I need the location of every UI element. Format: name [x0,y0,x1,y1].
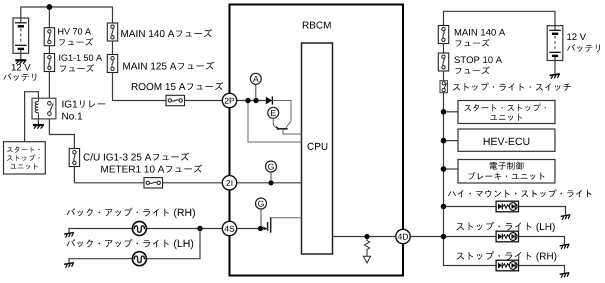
lamp L1: back-up light RH [132,222,146,236]
lamp L4: stop light LH [496,231,518,242]
wire: top bus drop to HV fuse column [48,7,50,28]
arrow: to other circuit [363,256,370,263]
label: ROOM 15 Aフューズ [132,82,223,90]
label: フューズ (HV) [59,38,93,46]
box: スタート・ストップ・ユニット (right) [458,101,555,124]
ground: stop light LH [560,244,570,249]
wire: MAIN140 to MAIN125 [112,41,114,55]
lamp L2: back-up light LH [132,252,146,266]
label: バック・アップ・ライト (LH) [67,239,194,249]
wire: CPU output to 4D [333,236,396,238]
relay K1: IG1リレー No.1 [32,98,56,119]
label: HV 70 A [58,28,91,34]
ground: back-up light RH [64,232,74,237]
junction: brake unit tap [441,166,447,172]
label: MAIN 140 A (right) [455,29,505,36]
label: 12 V (left battery) [12,64,31,71]
connector 2I [222,176,236,190]
label: No.1 [62,113,82,120]
label: MAIN 125 Aフューズ [123,62,214,70]
ground: stop light RH [560,273,570,278]
connector 2P [222,93,236,107]
wire: top-right bus [444,11,556,25]
label: フューズ (MAIN right) [456,39,490,47]
junction: top bus [47,4,53,10]
ground: high-mount stop light [561,215,571,220]
wire: top-left bus [21,7,113,23]
battery B2 (right 12 V) [547,26,563,61]
junction: 4D / stop light LH tap [441,234,447,240]
fuse F7: METER1 10 A [144,178,163,188]
wire: bus to brake unit [444,168,459,170]
wire: LH back-up light joins RH [69,229,200,264]
junction: 2I node [268,180,273,185]
label: フューズ (IG1-1) [60,64,94,72]
label: バッテリ (left battery) [3,73,36,81]
node G (lower) [256,198,267,209]
wire: STOP fuse to switch [443,71,445,81]
node E [268,107,279,118]
wire: relay to C/U fuse to METER1 fuse to 2I [49,119,221,183]
box: 電子制御ブレーキ・ユニット [458,160,555,184]
wire: 4D to bus [410,236,443,238]
ground: right battery [554,61,556,75]
label: ストップ・ライト (RH) [457,251,557,261]
lamp L5: stop light RH [496,260,518,271]
label: ストップ・ライト (LH) [457,222,555,232]
wire: 2I to CPU [236,182,301,184]
diode D1 [266,96,273,104]
junction: 4S node [258,226,263,231]
fuse F1: HV 70 A [44,28,54,46]
wire: bus to stop light LH [444,237,565,245]
wire: 4S into RBCM [236,228,266,230]
label: STOP 10 A [454,56,502,63]
label: CPU [308,143,328,150]
junction: back-up lights [197,226,202,231]
label: ストップ・ライト・スイッチ [453,83,571,91]
ground: left battery [20,53,22,60]
junction: resistor tap [364,234,369,239]
battery B1 (left 12 V) [13,18,29,53]
junction: HEV-ECU tap [441,138,447,144]
wire: 2P into RBCM to diode [236,100,265,102]
connector 4D [396,229,410,243]
label: RBCM [303,22,331,29]
fuse F4: MAIN 125 A [107,55,117,73]
box: RBCM [230,5,404,276]
wire: bus to high-mount stop light [444,207,566,216]
label: バック・アップ・ライト (RH) [67,208,195,218]
junction: high-mount tap [441,204,447,210]
node G (upper) [266,161,277,172]
wire: right bus down to stop light RH row [444,93,497,266]
wire: relay coil to ground [37,119,39,125]
box: CPU [302,43,333,254]
wire: bus to HEV-ECU [444,140,459,142]
fuse F5: ROOM 15 A [166,95,185,105]
label: 12 V (right battery) [567,33,586,40]
label: IG1-1 50 A [59,55,102,61]
transistor Q1 (PNP) [273,118,301,134]
fuse F9: STOP 10 A [438,53,448,71]
fuse F3: MAIN 140 A (left) [107,23,117,41]
fuse F6: C/U IG1-3 25 A [69,149,79,167]
wire: IG1-1 fuse to relay [48,72,50,99]
connector 4S [222,221,236,235]
transistor Q2 (output FET) [263,217,301,233]
wire: start-stop unit to relay coil [25,92,39,142]
label: METER1 10 Aフューズ [101,165,202,173]
fuse F2: IG1-1 50 A [44,54,54,72]
label: IG1リレー [62,100,105,108]
ground: back-up light LH [64,263,74,268]
lamp L3: high-mount stop light [496,201,518,212]
fuse F8: MAIN 140 A (right) [438,26,448,44]
box: HEV-ECU [458,129,555,151]
wire: MAIN125 fuse to ROOM fuse to connector 2P [113,73,222,101]
label: MAIN 140 Aフューズ (left) [121,29,212,37]
node A [250,73,261,84]
label: バッテリ (right battery) [567,44,600,52]
wire: diode to transistor collector [272,101,291,128]
resistor R1 [364,239,369,256]
wire: MAIN140R to STOP fuse [443,44,445,54]
wire: RH back-up light to 4S [69,229,222,234]
ground: relay coil [33,125,44,129]
junction: 2P node 2 [253,98,258,103]
wire: HV fuse to IG1-1 fuse [48,46,50,54]
wire: stop light RH row [519,266,565,274]
label: C/U IG1-3 25 Aフューズ [84,153,190,161]
junction: start-stop unit tap [441,109,447,115]
wire: bus to start-stop unit [444,111,459,113]
switch S1: stop light switch [440,81,447,93]
box: スタート・ストップ・ユニット (left) [4,142,46,174]
label: フューズ (STOP) [456,67,490,75]
label: ハイ・マウント・ストップ・ライト [448,189,591,197]
wire: 2P bypass to CPU [248,101,302,143]
junction: 2P node 1 [245,98,250,103]
